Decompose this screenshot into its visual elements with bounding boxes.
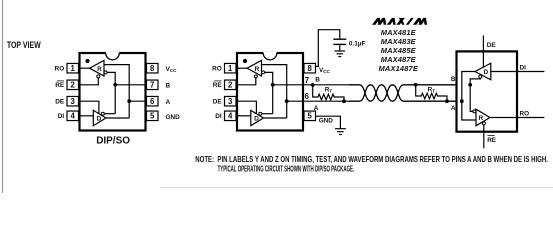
left package pin numbers [71, 64, 156, 121]
svg-text:A: A [166, 99, 171, 106]
pin 1 box [67, 63, 79, 72]
svg-text:7: 7 [305, 76, 309, 85]
svg-text:RT: RT [428, 87, 436, 94]
twisted pair cable wire B [349, 85, 470, 101]
wire pin5 GND to ground [316, 116, 341, 129]
wire pin4 DI to D input [236, 115, 251, 117]
svg-text:R: R [97, 66, 102, 73]
svg-text:5: 5 [150, 111, 155, 120]
wire D bubble to B line [470, 78, 480, 85]
svg-text:MAX487E: MAX487E [381, 55, 417, 64]
svg-text:RO: RO [55, 65, 65, 72]
svg-text:5: 5 [308, 111, 313, 120]
svg-text:MAX481E: MAX481E [381, 28, 417, 37]
pin 5 box [147, 111, 159, 121]
junction dot Rt left top [311, 83, 315, 87]
receiver input bubble (B) [473, 110, 476, 113]
svg-text:RT: RT [325, 87, 333, 94]
wire pin6 A out [287, 100, 350, 102]
wire D bubble to B riser [104, 113, 115, 115]
svg-text:DI: DI [58, 113, 65, 120]
driver inverting output bubble [101, 112, 104, 115]
svg-text:MAX483E: MAX483E [381, 37, 417, 46]
svg-text:MAX485E: MAX485E [381, 46, 417, 55]
left package left pin labels [55, 65, 65, 120]
svg-text:DI: DI [520, 65, 527, 72]
receiver R2 triangle [247, 60, 262, 76]
wire D apex to A riser [263, 117, 286, 119]
wire RE from R enable [483, 125, 485, 148]
driver D3 triangle (points left) [475, 63, 491, 80]
wire capacitor to ground [339, 44, 341, 51]
wire D apex to A line [462, 72, 475, 102]
svg-text:7: 7 [150, 80, 154, 89]
svg-text:D: D [483, 69, 488, 76]
receiver enable bubble [482, 122, 485, 125]
svg-text:RE: RE [487, 137, 497, 144]
svg-text:8: 8 [308, 64, 313, 73]
receiver input bubble (B) [104, 71, 107, 74]
pin 6 box [147, 96, 159, 106]
svg-text:RO: RO [212, 65, 222, 72]
pin 4 box [67, 111, 79, 121]
pin 8 box [304, 63, 316, 72]
page left border gray line [2, 0, 4, 193]
svg-text:GND: GND [166, 114, 181, 121]
svg-text:1: 1 [228, 64, 233, 73]
svg-text:MAX1487E: MAX1487E [379, 64, 419, 73]
svg-text:3: 3 [71, 97, 76, 106]
svg-text:TYPICAL OPERATING CIRCUIT SHOW: TYPICAL OPERATING CIRCUIT SHOWN WITH DIP… [218, 165, 355, 174]
svg-text:A: A [314, 105, 319, 112]
wire pin1 RO to R apex [79, 67, 90, 69]
pin 2 box [67, 80, 79, 90]
svg-text:TOP VIEW: TOP VIEW [7, 40, 41, 50]
wire VCC from pin 8 [316, 30, 340, 67]
wire pin3 DE to D enable [79, 101, 99, 114]
capacitor C1 0.1uF plates [333, 38, 346, 40]
svg-text:DE: DE [213, 98, 223, 105]
wire pin1 RO to R apex [236, 67, 247, 69]
pin 2 box [225, 80, 237, 90]
pin 1 marker dot [243, 59, 247, 63]
logo letter M [413, 18, 427, 25]
junction dot B internal [271, 83, 275, 87]
receiver enable bubble [254, 75, 257, 78]
pin 5 box [304, 111, 316, 121]
driver D1 triangle [93, 110, 106, 125]
junction dot B entry [468, 83, 472, 87]
svg-text:6: 6 [305, 92, 310, 101]
resistor Rt left [313, 85, 344, 101]
wire pin4 DI to D input [79, 115, 94, 117]
wire D apex to A riser [106, 117, 129, 119]
junction dot A internal [285, 99, 289, 103]
wire R input B bubble to B riser [265, 72, 273, 113]
pin 1 marker dot [85, 59, 89, 63]
svg-text:A: A [451, 105, 456, 112]
package notch [106, 52, 120, 59]
driver inverting output bubble [479, 75, 482, 78]
wire A line to R lower input [462, 101, 476, 120]
junction dot Rt left bottom [342, 99, 346, 103]
wire pin2 RE to R enable [236, 78, 256, 85]
ground symbol (GND pin) [335, 128, 346, 130]
svg-text:DIP/SO: DIP/SO [96, 136, 130, 147]
wire R apex to RO [490, 117, 544, 119]
junction dot Rt right top [414, 83, 418, 87]
logo letter I [406, 18, 414, 25]
wire DI into D input [491, 71, 545, 73]
svg-text:4: 4 [228, 111, 233, 120]
svg-text:8: 8 [150, 64, 155, 73]
svg-text:VCC: VCC [319, 67, 331, 74]
svg-text:R: R [478, 115, 483, 122]
twisted pair cable wire A [349, 85, 462, 101]
svg-text:6: 6 [150, 97, 155, 106]
middle package left pin labels [212, 65, 222, 120]
wire DE into box [482, 36, 484, 68]
package body U1 [80, 53, 146, 131]
pin 8 box [147, 63, 159, 72]
svg-text:DI: DI [215, 113, 222, 120]
svg-text:B: B [315, 77, 320, 84]
driver D2 triangle [251, 110, 264, 125]
svg-text:RO: RO [520, 111, 530, 118]
pin 3 box [67, 96, 79, 106]
svg-text:2: 2 [228, 80, 233, 89]
junction dot A [127, 99, 131, 103]
pin 3 box [225, 96, 237, 106]
receiver enable bubble [97, 75, 100, 78]
logo letter A [387, 18, 396, 25]
svg-text:GND: GND [319, 117, 334, 124]
svg-text:D: D [254, 116, 259, 123]
package notch [263, 52, 277, 59]
logo letter X [396, 18, 405, 25]
wire pin3 DE to D enable [236, 101, 256, 114]
pin 7 box [147, 80, 159, 90]
svg-text:B: B [451, 76, 456, 83]
ground symbol (capacitor) [335, 50, 346, 52]
left package right pin labels [166, 66, 181, 121]
svg-text:R: R [255, 66, 260, 73]
middle package pin numbers [228, 64, 313, 121]
wire R input B bubble to B riser [107, 72, 115, 113]
svg-text:VCC: VCC [166, 66, 178, 73]
svg-text:B: B [166, 82, 171, 89]
wire pin7 B [115, 84, 146, 86]
receiver input bubble (B) [262, 71, 265, 74]
receiver R1 triangle [90, 60, 105, 76]
driver inverting output bubble [259, 112, 262, 115]
logo letter M [372, 18, 386, 25]
svg-text:4: 4 [71, 111, 76, 120]
svg-text:NOTE: PIN LABELS Y AND Z ON T: NOTE: PIN LABELS Y AND Z ON TIMING, TEST… [195, 155, 548, 164]
junction dot B [113, 83, 117, 87]
svg-text:DE: DE [55, 98, 65, 105]
note text [195, 155, 548, 174]
wire R input A (upper) to A riser [104, 65, 129, 118]
part numbers list [379, 28, 419, 73]
svg-text:D: D [97, 116, 102, 123]
svg-text:2: 2 [71, 80, 76, 89]
wire B line to R input bubble [470, 85, 473, 112]
wire pin6 A [129, 100, 146, 102]
svg-text:1: 1 [71, 64, 76, 73]
pin 4 box [225, 111, 237, 121]
junction dot A entry [460, 99, 464, 103]
svg-text:3: 3 [228, 97, 233, 106]
svg-text:0.1µF: 0.1µF [349, 40, 366, 47]
svg-text:RE: RE [213, 82, 223, 89]
pin 1 box [225, 63, 237, 72]
wire pin2 RE to R enable [79, 78, 99, 85]
svg-text:RE: RE [55, 82, 65, 89]
wire pin7 B out [273, 84, 350, 86]
faint bottom rule [160, 187, 553, 189]
transceiver box U3 [457, 51, 518, 131]
wire D bubble to B riser [262, 113, 273, 115]
package body U2 [237, 53, 303, 131]
resistor Rt right [416, 85, 447, 101]
wire R input A to A riser [262, 65, 287, 118]
receiver R3 triangle (points right) [476, 109, 490, 126]
junction dot Rt right bottom [445, 99, 449, 103]
svg-text:DE: DE [487, 42, 497, 49]
